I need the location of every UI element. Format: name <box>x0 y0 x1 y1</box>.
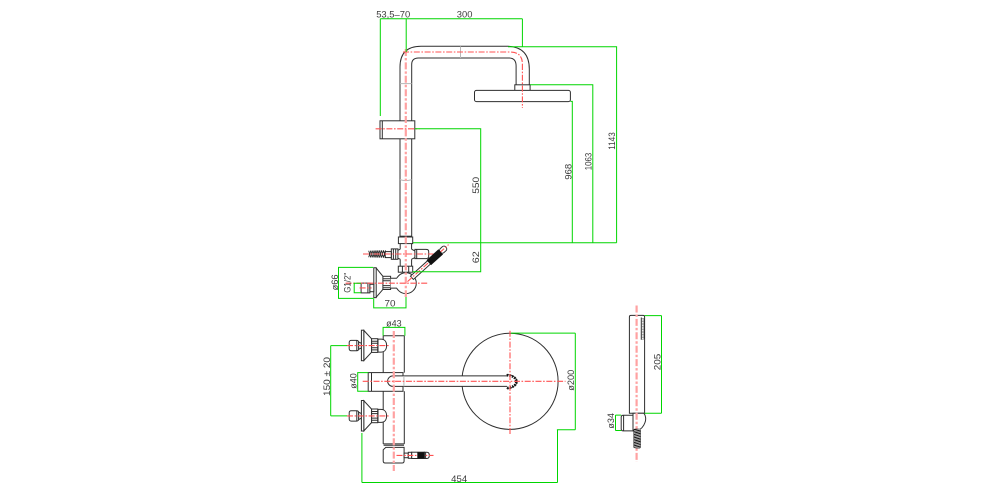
tee right port taper <box>412 249 416 259</box>
valve lever handle shaft <box>410 245 448 280</box>
lower mount centerline red <box>347 415 390 417</box>
dimension 53,5-70 top line <box>380 18 522 20</box>
extension line wall plane <box>379 19 381 116</box>
knurled ring on wall union <box>383 276 391 289</box>
bottom housing block <box>383 447 404 463</box>
riser pipe centerline (vertical, red dash-dot) <box>405 49 407 297</box>
handle elbow in holder <box>633 413 646 431</box>
hand shower centerline (red vertical) <box>635 306 637 463</box>
neck between ring and valve <box>391 278 398 288</box>
top arm pipe centerline (red dash-dot) <box>403 52 522 64</box>
extension line head axis <box>521 19 523 47</box>
common dimension baseline <box>413 242 617 244</box>
holder pin body <box>412 452 425 458</box>
svg-text:70: 70 <box>385 299 396 310</box>
nipple eccentric centerline (red) <box>360 287 372 289</box>
diverter knob (right) <box>415 249 429 258</box>
svg-text:1063: 1063 <box>583 153 594 171</box>
holder pin stem <box>404 453 408 458</box>
lever centerline (red diagonal) <box>408 245 449 282</box>
mount escutcheon face <box>361 330 364 361</box>
wall holder bracket <box>621 415 633 431</box>
lock nut below tee <box>398 266 412 272</box>
svg-text:150 ± 20: 150 ± 20 <box>322 357 333 396</box>
shower arm (front view stadium) <box>388 376 507 387</box>
hose nut (left) <box>391 249 398 259</box>
svg-text:ø40: ø40 <box>348 373 359 389</box>
dimension 1063 extension <box>530 85 593 243</box>
svg-text:454: 454 <box>451 474 467 485</box>
svg-text:1143: 1143 <box>607 132 618 150</box>
dimension 968 extension <box>570 101 572 242</box>
holder pin grip (black) <box>417 452 424 458</box>
mount knurled ring <box>372 339 378 353</box>
shower arm pipe outline (outer contour) <box>400 46 529 238</box>
shower arm pipe outline (inner contour) <box>412 58 516 238</box>
upper mount centerline red <box>347 345 390 347</box>
dimension 454 <box>362 430 558 483</box>
upper wall mount (front) <box>349 330 386 361</box>
tee outlet centerline (red horizontal) <box>363 253 434 255</box>
head circle vertical centerline <box>509 331 511 435</box>
dimension 62 line <box>413 243 481 272</box>
wall escutcheon (side view cone) <box>374 268 376 298</box>
G1/2 threaded nipple <box>361 283 370 293</box>
svg-text:968: 968 <box>563 164 574 180</box>
pipe joint mark on riser upper <box>400 83 412 85</box>
hand shower body <box>629 315 644 413</box>
pipe joint mark on horizontal arm <box>460 46 462 58</box>
svg-text:62: 62 <box>471 251 482 263</box>
head axis centerline (red vertical) <box>521 64 523 108</box>
wall bar (front view) <box>383 336 404 444</box>
collar fitting above diverter tee <box>400 235 412 237</box>
dimension o40 bracket <box>358 373 369 392</box>
extension line riser axis <box>405 19 407 52</box>
mixing valve ball body <box>396 273 417 294</box>
holder pin centerline <box>397 454 434 456</box>
dimension o34 <box>616 415 622 430</box>
dimension o200 <box>511 333 575 430</box>
mount knob <box>349 340 359 350</box>
svg-text:ø34: ø34 <box>606 413 617 429</box>
overhead shower head (side profile slab) <box>475 90 571 101</box>
pipe joint mark on riser mid <box>400 180 412 181</box>
dimension 70 bracket <box>374 297 406 308</box>
flexible hose coil (left, crosshatched) <box>369 250 386 257</box>
mount cone <box>364 331 372 361</box>
svg-text:205: 205 <box>652 354 663 371</box>
lower wall mount (front) <box>349 401 386 432</box>
slide rail wall bracket (slider block) <box>380 121 415 139</box>
tee left port taper <box>396 249 400 259</box>
mount taper <box>359 342 362 349</box>
outlet block on bar <box>368 373 403 392</box>
svg-text:G1/2": G1/2" <box>342 273 353 293</box>
svg-text:300: 300 <box>457 10 473 21</box>
overhead shower connector block <box>515 85 530 91</box>
dimension o66 bracket <box>339 267 374 298</box>
threaded stub (left) <box>385 252 391 258</box>
diverter tee body <box>400 244 411 267</box>
arm end cap (hatched dome nut) <box>507 375 517 389</box>
dimension 1143 extension (top) <box>508 47 617 243</box>
valve lever grip (black) <box>427 250 443 265</box>
shower hose coil <box>634 429 641 449</box>
dimension 550 line <box>415 129 481 243</box>
spray face strip (hatched) <box>641 318 644 340</box>
overhead shower head circle (o200) <box>462 333 558 429</box>
mount clamp on bar <box>378 339 387 352</box>
slider centerline (red horizontal) <box>376 128 420 130</box>
svg-text:ø200: ø200 <box>566 370 577 391</box>
bar edge seen through arm (joint mark) <box>403 376 405 387</box>
valve axis centerline (red horizontal) <box>346 282 428 284</box>
svg-text:ø66: ø66 <box>330 274 341 290</box>
holder pin collar <box>408 452 411 458</box>
svg-text:550: 550 <box>471 177 482 194</box>
svg-text:ø43: ø43 <box>386 319 402 330</box>
dimension o43 bracket <box>383 327 405 335</box>
svg-text:53,5–70: 53,5–70 <box>376 9 410 20</box>
holder pin end cap <box>424 452 429 458</box>
bar bottom joint lines <box>383 444 404 445</box>
arm horizontal centerline <box>363 380 566 382</box>
dimension 150 +- 20 <box>331 346 347 416</box>
dimension G1/2 bracket <box>354 283 361 293</box>
slider block inner face line <box>381 121 383 139</box>
front bar centerline (red vertical) <box>393 331 395 471</box>
dimension 205 <box>644 316 661 414</box>
